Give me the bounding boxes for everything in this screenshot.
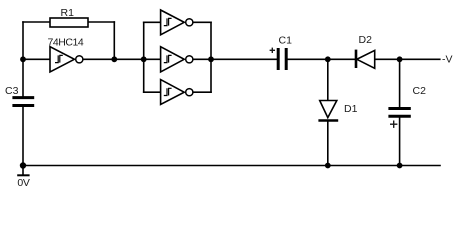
svg-text:D2: D2 [359, 34, 373, 46]
svg-text:C2: C2 [413, 85, 427, 97]
svg-text:0V: 0V [17, 177, 30, 189]
svg-text:74HC14: 74HC14 [48, 37, 84, 49]
svg-text:-V: -V [442, 53, 453, 65]
svg-text:R1: R1 [61, 7, 75, 19]
svg-text:C3: C3 [5, 85, 19, 97]
svg-text:D1: D1 [344, 103, 358, 115]
svg-text:C1: C1 [279, 35, 293, 47]
